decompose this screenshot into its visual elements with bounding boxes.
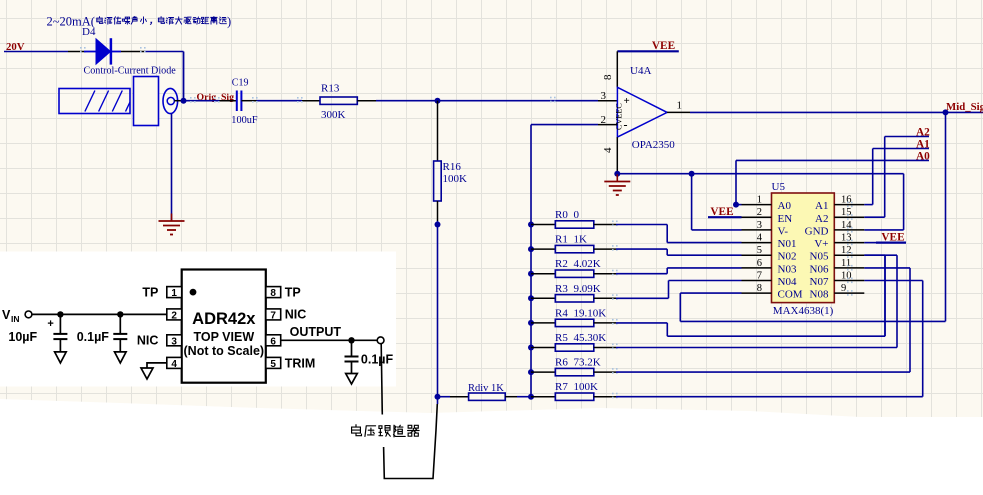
op-amp U4A [601,65,683,153]
svg-text:19.10K: 19.10K [574,307,607,319]
annotation 2~20mA current note [47,15,232,29]
caption voltage follower [352,425,419,437]
IC U5 MAX4638 [742,181,865,317]
svg-text:8: 8 [757,283,762,294]
ground sensor [159,214,185,235]
wire R1 to mux [616,249,742,255]
svg-text:N08: N08 [810,289,829,301]
svg-text:C19: C19 [232,78,249,89]
svg-text:V+: V+ [814,238,828,250]
svg-text:+: + [624,95,630,107]
svg-text:TRIM: TRIM [285,357,316,371]
ground op-amp [604,174,630,195]
svg-text:R7: R7 [555,381,568,393]
svg-text:100uF: 100uF [231,115,258,126]
svg-text:100K: 100K [443,173,468,185]
wire ground rail [617,173,903,175]
wire follower loop [381,344,437,479]
svg-text:TP: TP [142,286,158,300]
svg-text:NIC: NIC [137,334,159,348]
power VEE at U5 V+ pin [864,232,906,244]
wire rail to U5 V- pin 3 [692,174,742,230]
svg-text:A0: A0 [778,200,792,212]
svg-text:R6: R6 [555,357,568,369]
svg-text:4: 4 [602,147,614,153]
svg-text:N06: N06 [810,263,829,275]
svg-text:4: 4 [171,359,177,370]
node bus R6 [528,369,534,375]
wire ladder bus [530,125,532,397]
wire rail to U5 GND pin 14 [864,174,903,230]
svg-text:0: 0 [574,209,580,221]
wire R0 to mux [616,225,742,243]
svg-text:MAX4638(1): MAX4638(1) [773,305,834,317]
svg-text:EN: EN [778,213,793,225]
wire C19 to R13 [241,97,320,103]
svg-text:V-: V- [778,225,789,237]
svg-text:NIC: NIC [285,308,307,322]
svg-text:Control-Current Diode: Control-Current Diode [84,66,177,77]
svg-text:+: + [47,318,53,330]
node Orig_Sig [181,92,235,104]
svg-text:R2: R2 [555,258,568,270]
svg-text:OUTPUT: OUTPUT [290,325,342,339]
wire op-amp output [667,111,983,113]
sensor Control-Current Diode [59,66,184,126]
svg-text:16: 16 [841,195,852,206]
wire diode to corner [121,47,184,101]
svg-text:R16: R16 [443,161,462,173]
resistor Rdiv [438,383,532,400]
svg-text:10: 10 [841,271,852,282]
node A0 pin 1 [733,202,739,208]
wire Orig_Sig to C19 [184,97,237,103]
svg-text:6: 6 [270,336,276,347]
resistor R5 [531,332,618,351]
svg-text:R13: R13 [321,83,340,95]
svg-text:8: 8 [602,74,614,80]
svg-text:8: 8 [270,288,276,299]
svg-text:N05: N05 [810,251,829,263]
net label 20V [6,41,25,53]
net label A2 and wire to pin 15 [864,127,930,218]
svg-text:1: 1 [757,195,762,206]
node R16 tap [435,98,441,104]
node bus R1 [528,246,534,252]
svg-text:3: 3 [601,90,607,102]
svg-text:R3: R3 [555,283,568,295]
node bus R4 [528,320,534,326]
svg-text:5: 5 [757,245,762,256]
svg-text:9.09K: 9.09K [574,283,601,295]
svg-text:U4A: U4A [630,65,651,77]
node bus R3 [528,295,534,301]
svg-text:2: 2 [757,207,762,218]
svg-text:73.2K: 73.2K [574,357,601,369]
wire 20V net [4,47,86,53]
ADR42x datasheet figure white background [0,252,396,387]
node Rdiv bus [435,394,441,400]
node below R16 [435,222,441,228]
svg-text:GND: GND [805,225,829,237]
resistor R1 [531,234,618,253]
svg-text:2: 2 [171,310,177,321]
svg-text:(Not to Scale): (Not to Scale) [184,344,265,358]
svg-text:3: 3 [757,220,762,231]
svg-text:R1: R1 [555,234,568,246]
svg-text:9: 9 [841,283,846,294]
svg-text:-: - [624,118,628,132]
svg-text:0.1µF: 0.1µF [361,353,394,367]
wire R7 to mux [616,281,923,397]
node Mid_Sig [943,101,983,115]
power VEE at U5 EN pin [708,206,742,218]
svg-text:10µF: 10µF [8,330,37,344]
svg-text:7: 7 [757,271,762,282]
resistor R16 [434,101,467,225]
svg-text:7: 7 [270,310,276,321]
wire VEE to op-amp pin 8 [616,51,618,87]
capacitor C19 [231,78,258,126]
svg-text:Mid_Sig: Mid_Sig [946,101,983,113]
net label A1 and wire to pin 16 [864,139,930,205]
wire R2 to mux [616,268,742,274]
svg-text:100K: 100K [574,381,599,393]
wire op-amp pin 2 from ladder bus [531,124,617,126]
node op-amp ground [614,171,620,177]
svg-text:): ) [227,15,231,29]
svg-text:12: 12 [841,245,852,256]
wire sensor ground [171,114,173,222]
svg-text:5: 5 [270,359,276,370]
svg-text:N02: N02 [778,251,797,263]
wire R4 to mux [616,255,885,336]
svg-text:N07: N07 [810,276,829,288]
svg-text:4: 4 [757,233,763,244]
ADR42x figure [2,270,393,385]
svg-text:N01: N01 [778,238,797,250]
svg-text:300K: 300K [321,109,346,121]
node bus R5 [528,345,534,351]
wire R6 to mux [616,268,910,372]
svg-text:IN: IN [11,314,20,324]
power VEE op-amp [617,40,679,52]
net label A0 and wire to pin 1 [736,151,930,205]
bottom white margin [0,399,983,495]
resistor R6 [531,357,618,376]
svg-text:11: 11 [841,258,851,269]
svg-text:13: 13 [841,233,852,244]
svg-text:A2: A2 [815,213,828,225]
svg-text:15: 15 [841,207,852,218]
svg-text:3: 3 [171,336,177,347]
wire R16 node to Rdiv and follower [437,225,439,405]
svg-text:CVEEC: CVEEC [615,103,624,130]
resistor R4 [531,307,618,326]
svg-text:6: 6 [757,258,762,269]
svg-text:COM: COM [778,289,803,301]
wire COM to Mid_Sig [680,112,945,321]
svg-text:45.30K: 45.30K [574,332,607,344]
svg-text:TOP VIEW: TOP VIEW [193,330,254,344]
node bus R7 [528,394,534,400]
svg-text:N03: N03 [778,263,797,275]
wire R3 to mux [616,281,742,299]
svg-text:OPA2350: OPA2350 [632,139,675,151]
svg-text:R4: R4 [555,307,568,319]
svg-text:R0: R0 [555,209,568,221]
svg-text:V: V [2,308,11,322]
svg-text:14: 14 [841,220,852,231]
wire op-amp pin 4 to ground rail [616,137,618,174]
svg-text:1: 1 [171,288,177,299]
svg-text:N04: N04 [778,276,797,288]
svg-text:R5: R5 [555,332,568,344]
svg-text:4.02K: 4.02K [574,258,601,270]
resistor R13 [320,83,357,122]
node V- tap [689,171,695,177]
svg-text:D4: D4 [82,26,96,38]
wire R5 to mux [616,255,897,347]
svg-text:0.1µF: 0.1µF [77,330,110,344]
diode D4 [82,26,121,65]
node bus R2 [528,271,534,277]
resistor R7 [531,381,618,400]
resistor R2 [531,258,618,277]
svg-text:U5: U5 [772,181,786,193]
svg-text:A1: A1 [815,200,828,212]
resistor R0 [531,209,618,228]
svg-text:ADR42x: ADR42x [192,310,256,328]
svg-text:1: 1 [677,100,683,112]
svg-text:1K: 1K [574,234,588,246]
resistor R3 [531,283,618,302]
svg-text:TP: TP [285,286,301,300]
node bus R0 [528,222,534,228]
wire R13 to op-amp [357,97,617,103]
